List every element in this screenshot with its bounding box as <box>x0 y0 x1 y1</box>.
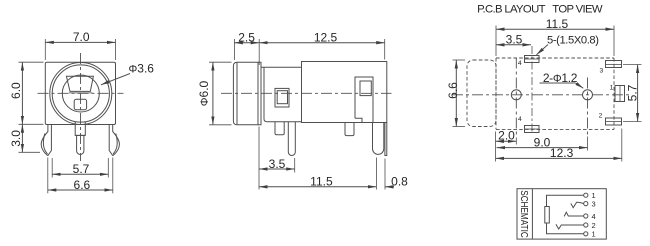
svg-text:12.3: 12.3 <box>550 146 574 160</box>
svg-text:4: 4 <box>592 212 596 221</box>
svg-text:1: 1 <box>592 230 596 239</box>
svg-text:6.6: 6.6 <box>74 178 91 192</box>
svg-text:1: 1 <box>610 85 614 92</box>
svg-text:9.0: 9.0 <box>534 135 551 149</box>
svg-text:SCHEMATIC: SCHEMATIC <box>518 190 529 238</box>
svg-text:0.8: 0.8 <box>391 174 408 188</box>
svg-text:Φ6.0: Φ6.0 <box>197 80 211 106</box>
svg-text:2: 2 <box>599 113 603 120</box>
svg-text:6.0: 6.0 <box>9 82 23 99</box>
svg-text:7.0: 7.0 <box>73 30 90 44</box>
svg-text:3.0: 3.0 <box>9 130 23 147</box>
svg-text:Φ3.6: Φ3.6 <box>129 62 155 76</box>
svg-text:4: 4 <box>518 60 522 67</box>
svg-text:11.5: 11.5 <box>310 174 333 188</box>
svg-text:5.7: 5.7 <box>73 162 90 176</box>
svg-text:2.5: 2.5 <box>238 30 255 44</box>
svg-text:12.5: 12.5 <box>314 30 338 44</box>
svg-text:5.7: 5.7 <box>625 84 639 101</box>
svg-text:3: 3 <box>600 68 604 75</box>
svg-text:2-Φ1.2: 2-Φ1.2 <box>543 71 578 85</box>
svg-text:4: 4 <box>518 116 522 123</box>
svg-text:2: 2 <box>592 221 596 230</box>
svg-text:3.5: 3.5 <box>506 32 523 46</box>
svg-text:2.0: 2.0 <box>498 129 515 143</box>
svg-text:6.6: 6.6 <box>446 82 460 99</box>
svg-text:3.5: 3.5 <box>269 157 286 171</box>
svg-text:P.C.B LAYOUT TOP VIEW: P.C.B LAYOUT TOP VIEW <box>477 3 603 15</box>
svg-text:11.5: 11.5 <box>546 17 569 31</box>
svg-text:3: 3 <box>592 199 596 208</box>
svg-text:5-(1.5X0.8): 5-(1.5X0.8) <box>547 34 599 46</box>
